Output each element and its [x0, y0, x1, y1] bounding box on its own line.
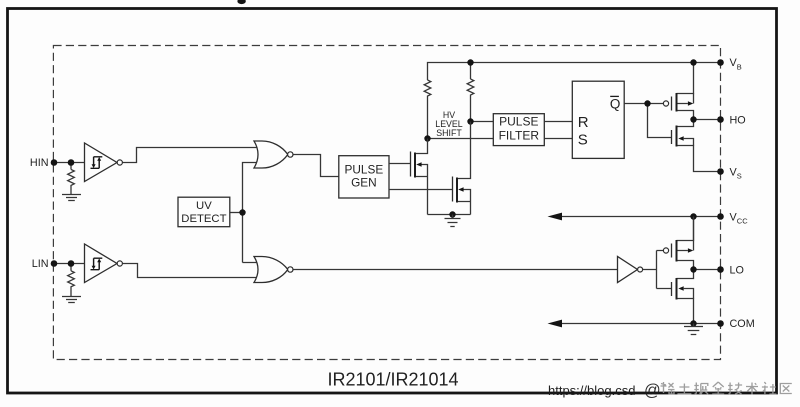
node COM pin dot: [717, 320, 724, 327]
arrow VCC to internal supply: [548, 213, 563, 221]
pin label HO: [730, 115, 746, 127]
node R2 bottom: [467, 118, 473, 124]
node LO pin dot: [717, 266, 724, 273]
NOR gate G1: [254, 141, 293, 168]
wire LIN input: [54, 263, 85, 265]
svg-text:B: B: [737, 62, 742, 71]
resistor R-HIN: [68, 169, 75, 194]
node VB pin dot: [717, 59, 724, 66]
transistor M1 level shift left: [411, 139, 428, 215]
svg-text:GEN: GEN: [351, 176, 377, 190]
wire VB rail: [428, 63, 721, 81]
schmitt buffer U1: [85, 143, 123, 182]
node HO internal junction: [690, 116, 696, 122]
block PULSE GEN: [339, 156, 389, 198]
label HV LEVEL SHIFT: [435, 110, 462, 138]
pin label VB: [730, 57, 742, 71]
wire buffer U1 output jog: [122, 148, 258, 163]
svg-text:LIN: LIN: [32, 258, 49, 270]
cropped title glyph descender: [237, 0, 245, 4]
wire LO node: [694, 269, 721, 271]
pin label VS: [730, 166, 742, 180]
svg-text:CC: CC: [737, 217, 748, 226]
node HIN resistor junction: [68, 159, 75, 166]
wire VCC down to M5: [693, 217, 695, 241]
node R1 bottom: [424, 135, 430, 141]
ground LIN: [62, 297, 81, 303]
resistor R1 level shift left: [424, 80, 431, 139]
watermark community: [644, 382, 792, 400]
svg-text:LO: LO: [730, 265, 744, 277]
node HIN pin dot: [51, 159, 58, 166]
wire HIN resistor stub: [70, 163, 72, 170]
transistor M6 low-side NMOS: [672, 270, 694, 324]
node VB-R2 junction: [467, 59, 473, 65]
wire buffer U2 output jog: [122, 264, 258, 278]
resistor R-LIN: [68, 271, 75, 297]
node Qbar junction: [644, 100, 650, 106]
svg-text:https://blog.csd: https://blog.csd: [548, 383, 635, 398]
block UV DETECT: [178, 197, 230, 227]
svg-text:@: @: [644, 382, 661, 400]
node level shift ground junction: [449, 211, 455, 217]
wire NOR G2 output to inverter: [293, 269, 618, 271]
transistor M5 low-side PMOS: [663, 217, 693, 270]
transistor M3 high-side PMOS: [663, 63, 693, 120]
wire HO node: [694, 119, 721, 121]
ground level shift: [445, 215, 461, 227]
wire COM rail: [560, 323, 721, 325]
latch RS flip-flop: [572, 81, 624, 158]
wire pulse gen bottom output to M2 gate: [389, 189, 453, 191]
wire UV net vertical to both NOR gates: [243, 163, 259, 263]
pin label HIN: [30, 157, 49, 169]
NOR gate G2: [254, 257, 293, 283]
wire pulse filter to latch R: [544, 121, 572, 123]
node VCC internal junction: [690, 213, 696, 219]
ground HIN: [62, 195, 81, 201]
schmitt buffer U2: [85, 244, 123, 283]
block PULSE FILTER: [493, 114, 544, 146]
svg-text:IR2101/IR21014: IR2101/IR21014: [327, 370, 458, 390]
wire R1 node to pulse filter S input: [428, 138, 494, 140]
pin label LO: [730, 265, 744, 277]
svg-text:SHIFT: SHIFT: [436, 128, 462, 138]
arrow COM to internal supply: [548, 320, 563, 328]
svg-text:Q: Q: [610, 97, 621, 112]
svg-text:S: S: [578, 132, 588, 149]
wire R2 stub: [470, 63, 472, 80]
svg-text:UV: UV: [196, 200, 212, 212]
svg-text:COM: COM: [730, 318, 755, 330]
svg-text:PULSE: PULSE: [345, 163, 384, 177]
pin label COM: [730, 318, 755, 330]
wire LIN resistor stub: [70, 264, 72, 271]
pin label VCC: [730, 211, 749, 225]
wire pulse filter to latch S: [544, 138, 572, 140]
svg-text:HIN: HIN: [30, 157, 49, 169]
resistor R2 level shift right: [467, 79, 474, 122]
wire Qbar to M4 gate: [648, 104, 672, 138]
node UV net junction: [239, 209, 245, 215]
ground COM: [684, 324, 703, 335]
IC boundary dashed box: [53, 46, 720, 360]
pin label LIN: [32, 258, 49, 270]
wire R2 node to pulse filter R input: [471, 121, 494, 123]
wire pulse gen top output to M1 gate: [389, 163, 411, 165]
node LIN pin dot: [51, 260, 58, 267]
node VS pin dot: [717, 168, 724, 175]
wire level shift source rail: [428, 214, 471, 216]
wire VCC rail: [560, 216, 721, 218]
inverter U3: [618, 257, 643, 283]
svg-text:S: S: [737, 172, 742, 181]
wire HIN input: [54, 162, 85, 164]
node HO pin dot: [717, 116, 724, 123]
node LO internal junction: [690, 266, 696, 272]
wire NOR G1 output to pulse gen: [293, 155, 339, 177]
transistor M4 high-side NMOS: [672, 120, 721, 172]
node VB internal junction: [690, 59, 696, 65]
node LIN resistor junction: [68, 260, 75, 267]
svg-text:FILTER: FILTER: [499, 128, 540, 142]
wire UV detect output: [230, 212, 243, 214]
wire inverter output to gates: [643, 251, 672, 289]
svg-text:DETECT: DETECT: [181, 213, 226, 225]
transistor M2 level shift right: [453, 122, 471, 215]
svg-text:HO: HO: [730, 115, 746, 127]
node COM internal junction: [690, 320, 696, 326]
svg-text:R: R: [578, 114, 589, 131]
watermark url: [548, 383, 635, 398]
wire latch Qbar output: [624, 103, 663, 105]
svg-text:PULSE: PULSE: [499, 115, 538, 129]
part number title: [327, 370, 458, 390]
node VCC pin dot: [717, 213, 724, 220]
